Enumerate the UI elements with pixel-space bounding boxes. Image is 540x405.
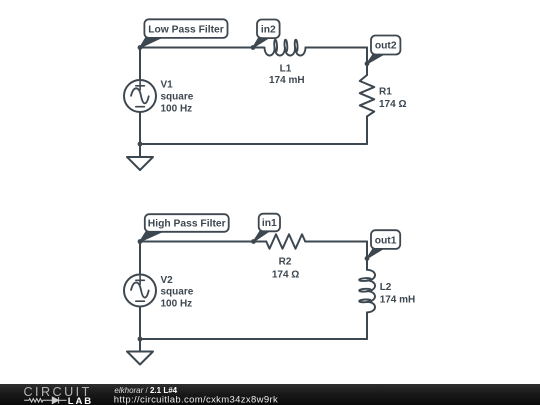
voltage source V1 — [124, 80, 156, 112]
svg-text:L1: L1 — [280, 64, 292, 75]
svg-text:R1: R1 — [379, 87, 392, 98]
svg-text:in1: in1 — [262, 218, 277, 229]
wire V1 to bottom-left junction — [139, 112, 141, 144]
callout out2 — [367, 36, 400, 64]
footer url — [114, 394, 278, 405]
wire V2 to bottom-left junction — [139, 307, 141, 340]
svg-text:LAB: LAB — [68, 396, 93, 405]
CircuitLab footer bar — [0, 384, 540, 405]
voltage source V2 — [124, 275, 156, 307]
svg-text:174 Ω: 174 Ω — [272, 269, 299, 280]
footer title elkhorar / 2.1 L#4 — [114, 386, 177, 395]
label R2 value — [272, 257, 299, 281]
node in1 dot — [251, 239, 256, 244]
svg-text:out2: out2 — [375, 41, 397, 52]
label L1 value — [269, 64, 305, 86]
callout out1 — [367, 230, 400, 258]
wire junction to ground (top circuit) — [139, 144, 141, 157]
junction dot (bottom circuit ground) — [138, 337, 143, 342]
wire L1 to top-right corner — [306, 47, 368, 49]
junction dot (top circuit ground) — [138, 142, 143, 147]
svg-text:174 Ω: 174 Ω — [379, 99, 406, 110]
wire L2 to bottom-right corner — [366, 312, 368, 339]
svg-text:R2: R2 — [279, 257, 292, 268]
node dot at Low Pass Filter anchor — [138, 45, 143, 50]
node out2 dot — [365, 61, 370, 66]
svg-text:174 mH: 174 mH — [380, 294, 416, 305]
svg-text:100 Hz: 100 Hz — [161, 299, 193, 310]
wire top-right corner down to resistor R1 — [366, 48, 368, 76]
label L2 value — [380, 282, 416, 305]
svg-text:out1: out1 — [375, 235, 397, 246]
resistor R1 — [360, 75, 375, 116]
CircuitLab logo text LAB — [68, 396, 93, 405]
svg-text:V2: V2 — [161, 275, 174, 286]
wire R2 to top-right corner (bottom circuit) — [305, 241, 367, 243]
wire in1 to resistor R2 — [254, 241, 267, 243]
node out1 dot — [365, 256, 370, 261]
callout Low Pass Filter — [140, 19, 228, 47]
CircuitLab logo schematic drawing — [24, 397, 66, 403]
node in2 dot — [251, 45, 256, 50]
callout in2 — [253, 20, 280, 48]
wire R1 to bottom-right corner — [366, 116, 368, 144]
wire junction to ground (bottom circuit) — [139, 339, 141, 352]
ground (top circuit) — [127, 157, 153, 170]
wire bottom (bottom circuit) — [140, 338, 367, 340]
svg-text:Low Pass Filter: Low Pass Filter — [148, 24, 224, 35]
svg-text:High Pass Filter: High Pass Filter — [148, 219, 226, 230]
svg-text:http://circuitlab.com/cxkm34zx: http://circuitlab.com/cxkm34zx8w9rk — [114, 394, 278, 405]
svg-text:in2: in2 — [261, 25, 276, 36]
label V2 value — [161, 275, 194, 310]
node dot at High Pass Filter anchor — [138, 239, 143, 244]
label R1 value — [379, 87, 406, 111]
svg-text:174 mH: 174 mH — [269, 75, 305, 86]
svg-text:V1: V1 — [161, 79, 174, 90]
wire top-left node down to V1 — [139, 48, 141, 81]
wire top node down to V2 — [139, 242, 141, 275]
svg-text:square: square — [161, 91, 194, 102]
wire top-left node to in2 (top circuit) — [140, 47, 253, 49]
svg-text:square: square — [161, 287, 194, 298]
wire corner down to inductor L2 — [366, 242, 368, 270]
label V1 value — [161, 79, 194, 114]
callout High Pass Filter — [140, 214, 229, 241]
svg-text:100 Hz: 100 Hz — [161, 103, 193, 114]
wire top-left node to in1 (bottom circuit) — [140, 241, 254, 243]
inductor L2 — [359, 270, 375, 313]
inductor L1 — [253, 40, 306, 56]
resistor R2 — [266, 234, 305, 249]
wire bottom (top circuit) — [140, 143, 367, 145]
CircuitLab logo text CIRCUIT — [24, 385, 92, 399]
svg-text:L2: L2 — [380, 282, 392, 293]
ground (bottom circuit) — [127, 352, 153, 365]
callout in1 — [254, 214, 281, 242]
